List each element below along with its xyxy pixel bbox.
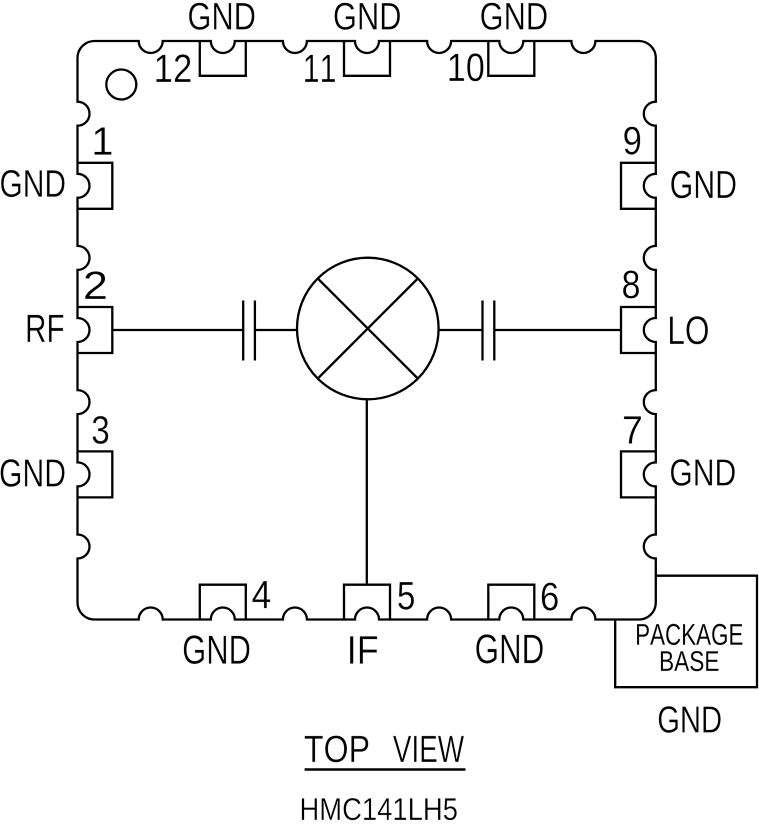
pin number 9 — [624, 127, 640, 155]
title underline — [305, 768, 466, 771]
mixer X diagonal 2 — [318, 279, 418, 379]
label GND pin4 — [184, 635, 250, 664]
pin 1 index circle — [106, 70, 136, 100]
pin 1 pad — [78, 163, 113, 209]
wire mixer to C2 — [439, 329, 483, 331]
wire C1 to mixer — [255, 329, 297, 331]
pin 8 pad — [621, 307, 656, 353]
pin 5 pad — [344, 585, 390, 620]
pin number 2 — [85, 271, 106, 299]
pin 7 pad — [621, 451, 656, 497]
pin number 1 — [94, 127, 111, 154]
label GND pin3 — [1, 459, 65, 487]
pin number 10 — [449, 53, 483, 81]
label GND pin10 — [481, 3, 547, 30]
label GND pin11 — [335, 3, 401, 30]
label RF pin2 — [28, 315, 64, 342]
capacitor C2 plate 2 — [493, 301, 495, 361]
pin number 6 — [542, 583, 558, 611]
title TOP — [305, 736, 369, 763]
wire C2 to pin8 LO — [494, 329, 621, 331]
pin number 7 — [624, 416, 641, 443]
pin number 5 — [398, 582, 414, 610]
pin number 4 — [252, 581, 270, 608]
label IF pin5 — [350, 636, 377, 664]
label PACKAGE — [637, 624, 742, 645]
capacitor C1 plate 1 — [242, 301, 244, 361]
capacitor C2 plate 1 — [481, 301, 483, 361]
label GND pin9 — [671, 171, 735, 199]
label GND pin7 — [671, 459, 735, 486]
label BASE — [661, 651, 719, 671]
pin number 11 — [305, 55, 335, 82]
pin 4 pad — [200, 585, 246, 620]
pin 10 pad — [488, 41, 534, 76]
capacitor C1 plate 2 — [254, 301, 256, 361]
pin 11 pad — [344, 41, 390, 76]
pin 6 pad — [488, 585, 534, 620]
title VIEW — [393, 736, 464, 762]
pin 9 pad — [621, 163, 656, 209]
mixer U1 circle — [297, 258, 439, 400]
part number HMC141LH5 — [302, 798, 457, 820]
wire mixer to pin5 IF — [366, 399, 368, 584]
pin 2 pad — [78, 307, 113, 353]
pin number 12 — [156, 54, 190, 82]
label GND package base — [659, 706, 721, 733]
label LO pin8 — [670, 316, 708, 344]
label GND pin6 — [476, 634, 543, 663]
pin 12 pad — [200, 41, 246, 76]
wire pin2 RF to C1 — [112, 329, 243, 331]
label GND pin12 — [189, 3, 255, 30]
label GND pin1 — [1, 170, 65, 197]
package base pad box — [615, 576, 757, 688]
mixer X diagonal 1 — [318, 279, 418, 379]
pin number 8 — [623, 270, 639, 298]
pin 3 pad — [78, 451, 113, 497]
pin number 3 — [93, 416, 109, 444]
package outline with edge notches — [78, 41, 656, 620]
